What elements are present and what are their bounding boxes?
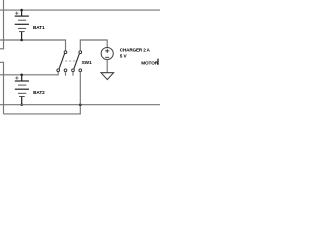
pole1 throw B terminal xyxy=(64,69,67,72)
pole1 throw B stub xyxy=(65,72,67,76)
pole2 throw A stub xyxy=(72,72,74,76)
pole1 common terminal xyxy=(64,51,67,54)
wire charger negative stub xyxy=(106,60,108,73)
pole2 throw A terminal xyxy=(72,69,75,72)
svg-text:BAT2: BAT2 xyxy=(33,90,45,95)
ground (triangle) xyxy=(101,73,114,80)
minus sign charger xyxy=(105,56,109,58)
wire top rail (BAT1+ to motor) xyxy=(0,9,160,11)
svg-text:MOTOR: MOTOR xyxy=(141,61,159,66)
svg-text:5 V: 5 V xyxy=(120,54,128,59)
box left edge (battery pack 1, cut off) xyxy=(0,0,4,49)
plus sign charger xyxy=(105,49,109,53)
gang dashed link xyxy=(61,60,77,62)
battery BAT1 xyxy=(15,10,29,40)
node SW1 throw to bottom rail junction xyxy=(79,103,82,106)
wire SW1 pole2 common to charger xyxy=(80,40,107,51)
svg-text:CHARGER 2 A: CHARGER 2 A xyxy=(120,48,151,53)
wire bottom loop (box2 corner to SW1 throw) xyxy=(4,105,81,114)
pole1 lever xyxy=(59,53,65,68)
battery BAT2 xyxy=(15,75,29,105)
wire BAT2 positive rail xyxy=(0,72,58,75)
box left edge (battery pack 2, cut off) xyxy=(0,62,4,114)
plus sign BAT2 xyxy=(15,76,18,79)
source V1 charger circle xyxy=(101,47,113,59)
node BAT1- junction xyxy=(20,39,23,42)
svg-text:SW1: SW1 xyxy=(82,60,92,65)
pole2 lever xyxy=(74,53,80,68)
pole2 throw B terminal xyxy=(79,69,82,72)
node BAT2+ junction xyxy=(20,74,23,77)
wire bottom rail (BAT2- to motor) xyxy=(0,104,160,106)
pole1 throw A terminal xyxy=(57,69,60,72)
pole2 common terminal xyxy=(79,51,82,54)
plus sign BAT1 xyxy=(15,12,18,15)
node BAT1+ junction xyxy=(20,9,23,12)
node BAT2- junction xyxy=(20,103,23,106)
pole2 throw B stub to bottom rail xyxy=(79,72,81,105)
svg-text:BAT1: BAT1 xyxy=(33,25,45,30)
label MOTOR 1 bar (clipped digit) xyxy=(157,59,158,65)
wire BAT1 negative rail xyxy=(0,40,66,51)
